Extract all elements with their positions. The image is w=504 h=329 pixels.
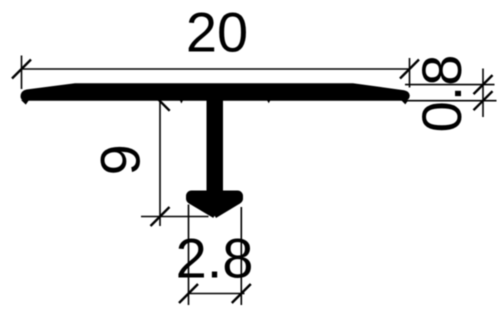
svg-text:2.8: 2.8 xyxy=(176,227,254,290)
dim 9: bottom tick xyxy=(151,207,170,226)
dim 0.8: top tick xyxy=(474,75,493,94)
dim 2.8: dimension line xyxy=(189,293,245,295)
profile foot arrow triangle xyxy=(190,203,241,219)
dim 2.8: left tick xyxy=(179,284,198,303)
dim 0.8: vertical dimension line xyxy=(482,69,484,118)
dim 0.8: bottom extension line xyxy=(407,100,497,102)
dim 9: vertical dimension line xyxy=(159,99,161,227)
flange right tip nub xyxy=(401,100,409,104)
flange left tip nub xyxy=(21,100,29,105)
dim 9: bottom extension line xyxy=(141,216,209,218)
svg-text:0.8: 0.8 xyxy=(410,55,473,133)
dim 0.8: top extension line xyxy=(405,84,495,86)
dim 20: right tick xyxy=(400,60,419,79)
tip notch xyxy=(213,216,217,219)
dim 20: dimension line xyxy=(22,68,410,70)
svg-text:20: 20 xyxy=(186,0,248,63)
dim 20: right extension line xyxy=(409,58,411,88)
profile flange (top horizontal bar, tapered rounded ends) xyxy=(21,83,410,101)
dim 2.8: left extension line xyxy=(188,205,190,306)
flange underside stub right xyxy=(267,100,271,103)
svg-text:9: 9 xyxy=(89,144,152,175)
flange underside stub left xyxy=(180,100,184,104)
dim 20: left tick xyxy=(12,60,31,79)
dim 9: top tick xyxy=(151,92,170,111)
dim 0.8: bottom tick xyxy=(474,91,493,110)
dim 20: left extension line xyxy=(21,56,23,90)
profile foot bar xyxy=(186,191,243,205)
dim 2.8: right extension line xyxy=(240,207,242,305)
dim 2.8: right tick xyxy=(232,284,251,303)
profile stem xyxy=(207,95,224,193)
